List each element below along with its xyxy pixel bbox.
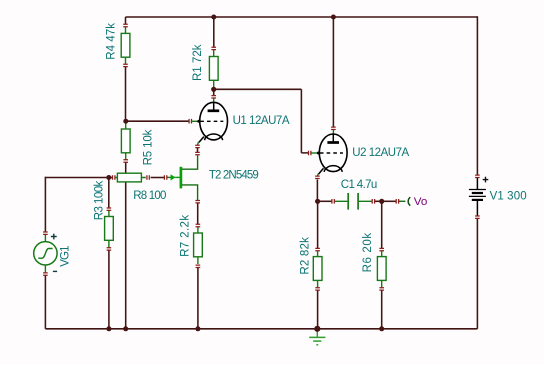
- U2 grid pin: [309, 151, 311, 156]
- U2 cathode pin: [315, 176, 320, 178]
- R2 pins: [315, 248, 320, 250]
- ground: [309, 331, 325, 345]
- wire R3 bottom: [108, 250, 110, 329]
- svg-text:R8 100: R8 100: [133, 190, 166, 202]
- wire bottom rail: [45, 328, 477, 330]
- svg-text:R4 47k: R4 47k: [106, 23, 118, 60]
- svg-text:R7 2.2k: R7 2.2k: [179, 215, 191, 257]
- T2 drain pin: [195, 152, 200, 154]
- wire VG1 column upper: [44, 177, 46, 232]
- resistor R4 47k: [121, 27, 130, 64]
- wire C1 left stub: [318, 200, 332, 202]
- svg-text:R2 82k: R2 82k: [300, 237, 312, 275]
- wire R3 top: [108, 178, 110, 209]
- wire R4 top: [125, 17, 127, 25]
- wire U1 grid row: [126, 120, 189, 122]
- node R4/R5/grid: [123, 119, 128, 124]
- Vo pin: [396, 199, 398, 204]
- wire R8 to T2 gate: [151, 177, 165, 179]
- U1 cathode pin: [195, 145, 200, 147]
- node C1 left: [315, 199, 320, 204]
- T2 source pin: [195, 201, 200, 203]
- resistor R3 100k: [105, 210, 114, 247]
- battery V1 300: [469, 177, 488, 216]
- wire R1 node to U1 plate: [213, 89, 215, 96]
- op-amp? no: vacuum tube U1 12AU7A: [191, 98, 228, 145]
- R7 pins: [196, 224, 201, 226]
- wire right rail lower: [476, 218, 478, 328]
- svg-text:R6 20k: R6 20k: [362, 233, 374, 273]
- node R1/plate: [211, 87, 216, 92]
- wire R1 top: [213, 17, 215, 47]
- resistor R6 20k: [377, 251, 386, 288]
- pin tick marks: [43, 24, 480, 290]
- node top-U2: [331, 15, 336, 20]
- U1 plate pin: [211, 96, 216, 98]
- wire R7 bottom: [197, 268, 199, 329]
- svg-text:R1 72k: R1 72k: [192, 44, 204, 81]
- wire top rail: [126, 16, 478, 18]
- wire R6 top: [381, 201, 383, 248]
- node C1 right / Vo: [379, 199, 384, 204]
- wire Vo stub: [382, 200, 397, 202]
- C1 pins: [332, 199, 334, 204]
- output terminal Vo: [399, 197, 411, 205]
- VG1 pins: [43, 232, 48, 234]
- resistor R5 10k: [121, 122, 130, 160]
- svg-text:VG1: VG1: [59, 245, 71, 266]
- wire U2 cathode to C1 node: [316, 180, 318, 202]
- node R3 bottom: [106, 326, 111, 331]
- R3 pins: [107, 208, 112, 210]
- resistor R8 100 (horizontal): [115, 173, 146, 182]
- wire U2 plate column: [332, 17, 334, 127]
- wire R8 left stub: [109, 177, 112, 179]
- U1 grid pin: [189, 119, 191, 124]
- wire right rail upper: [476, 16, 478, 175]
- node R5 bottom: [123, 326, 128, 331]
- resistor R2 82k: [313, 251, 322, 288]
- svg-text:Vo: Vo: [414, 196, 428, 208]
- transistor T2 2N5459 (n-JFET): [167, 155, 198, 200]
- node R6 bottom: [379, 326, 384, 331]
- wire plate node to U2 grid: [214, 89, 309, 153]
- svg-text:T2 2N5459: T2 2N5459: [209, 170, 259, 182]
- vacuum tube U2 12AU7A: [310, 130, 347, 177]
- svg-text:C1 4.7u: C1 4.7u: [341, 179, 378, 191]
- node ground: [314, 326, 320, 332]
- T2 gate pin: [164, 175, 166, 180]
- svg-text:V1 300: V1 300: [490, 190, 527, 202]
- wire C1 right stub: [375, 200, 382, 202]
- svg-text:R5 10k: R5 10k: [143, 129, 155, 165]
- node top-R1: [211, 15, 216, 20]
- svg-text:U1 12AU7A: U1 12AU7A: [233, 115, 290, 127]
- V1 pins: [475, 175, 480, 177]
- node R7 bottom: [195, 326, 200, 331]
- R1 top pin: [211, 47, 216, 49]
- wire R5 bottom long (passes behind R8): [125, 162, 127, 329]
- wire T2 source to R7: [197, 203, 199, 224]
- resistor R7 2.2k: [194, 227, 203, 264]
- wire R6 bottom: [381, 290, 383, 329]
- wire R2 top: [317, 201, 319, 248]
- capacitor C1 4.7u: [335, 193, 373, 210]
- voltage generator VG1: [34, 234, 57, 273]
- wire left row to R3/R8 node: [45, 177, 108, 179]
- R6 pins: [379, 248, 384, 250]
- svg-text:R3 100k: R3 100k: [93, 180, 105, 220]
- resistor R1 72k: [209, 50, 218, 88]
- wire R2 bottom: [317, 290, 319, 329]
- node VG1/R3/R8: [106, 175, 111, 180]
- U2 plate pin: [331, 127, 336, 129]
- wire R4 bottom to grid node: [125, 66, 127, 121]
- wire VG1 column lower: [44, 275, 46, 329]
- R5 bottom pin: [123, 160, 128, 162]
- svg-text:U2 12AU7A: U2 12AU7A: [352, 147, 409, 159]
- R8 pins: [113, 175, 115, 180]
- wire U1 cathode to T2 drain: [197, 148, 199, 153]
- R4 pins: [123, 24, 128, 26]
